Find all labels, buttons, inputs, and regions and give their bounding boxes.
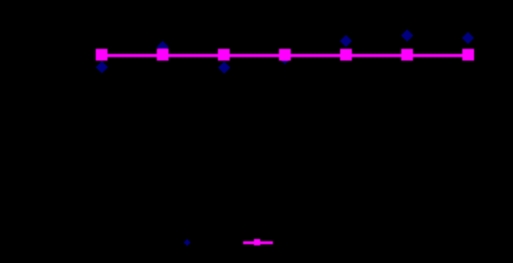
series 2 square marker S3 xyxy=(218,49,230,61)
legend diamond marker xyxy=(184,239,191,246)
series 1 diamond marker D1 xyxy=(96,61,108,73)
series 1 diamond marker D6 xyxy=(401,29,413,41)
series 1 diamond marker D3 xyxy=(218,62,230,74)
series 2 square marker S2 xyxy=(157,49,169,61)
legend square marker xyxy=(254,239,260,245)
series 1 diamond marker D4 xyxy=(279,52,291,64)
legend line xyxy=(243,241,273,244)
series 2 square marker S4 xyxy=(279,49,291,61)
series 2 square marker S5 xyxy=(340,49,352,61)
series 2 square marker S1 xyxy=(96,49,108,61)
series 2 square marker S7 xyxy=(462,49,474,61)
series 1 diamond marker D7 xyxy=(462,32,474,44)
series 1 diamond marker D2 xyxy=(157,41,169,53)
series 2 square marker S6 xyxy=(401,49,413,61)
series 2 line xyxy=(102,54,469,57)
series 1 diamond marker D5 xyxy=(340,35,352,47)
